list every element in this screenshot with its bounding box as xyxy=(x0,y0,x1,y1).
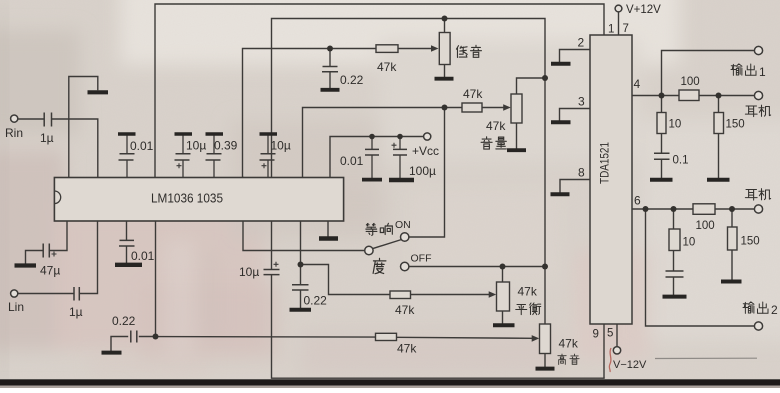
svg-text:3: 3 xyxy=(578,95,585,109)
resistor 150 (ch2) xyxy=(728,227,738,250)
wire: 0.01 bottom cap to ground xyxy=(126,247,128,263)
terminal Lin xyxy=(11,290,18,297)
svg-text:1µ: 1µ xyxy=(69,305,83,319)
svg-text:0.1: 0.1 xyxy=(673,155,689,167)
wire: 10 ohm branch ch2 xyxy=(673,209,675,229)
wire: LM1036 ground pin xyxy=(327,221,329,237)
wire: stair to balance wiper xyxy=(301,265,391,295)
capacitor 0.22 (bass line) xyxy=(322,67,338,72)
svg-text:+Vcc: +Vcc xyxy=(412,144,439,158)
wire: LM1036 left pin to top-left ground xyxy=(69,77,98,178)
wire: 10u #2 top cap leads xyxy=(267,136,269,178)
label 耳机 (headphone 1) xyxy=(745,106,757,117)
wire: balance 47k to wiper arrow xyxy=(411,294,490,296)
label 等响 (loudness) xyxy=(366,223,377,235)
wiper arrow (bass) xyxy=(431,45,439,52)
svg-text:2: 2 xyxy=(771,303,778,317)
wire: treble line to 47k xyxy=(156,336,376,339)
wire: LM1036 top pin to bass/treble rail (x=545 bus) xyxy=(272,19,546,325)
wire: output2 branch down xyxy=(646,209,755,326)
svg-text:V+12V: V+12V xyxy=(626,4,661,16)
ground (bass pot) xyxy=(435,77,454,81)
wire: 10 ohm branch ch1 xyxy=(661,96,663,113)
wire: TDA pin 3 stub to ground xyxy=(560,109,591,121)
ground (0.01 Vcc decoupling) xyxy=(362,178,382,182)
terminal V+12V xyxy=(615,5,622,12)
svg-text:0.22: 0.22 xyxy=(112,314,136,328)
svg-text:9: 9 xyxy=(593,329,599,341)
capacitor 0.22 (bottom-left, series) xyxy=(131,331,137,343)
switch SW loudness common contact xyxy=(365,246,373,254)
wire: 100 resistor to headphone jack 1 xyxy=(699,95,755,97)
capacitor 0.01 (above LM1036) xyxy=(119,154,135,160)
capacitor ch2 zobel xyxy=(666,271,684,277)
ground (150 ch1) xyxy=(707,178,730,182)
capacitor 1u (Rin coupling) xyxy=(44,113,51,127)
wire: 10 ohm to 0.1 cap ch1 xyxy=(661,134,663,153)
faint pencil line right xyxy=(655,357,757,359)
switch SW loudness ON contact xyxy=(401,233,409,241)
wire: TDA pin 5 lead to V-12V xyxy=(616,324,618,347)
svg-text:10µ: 10µ xyxy=(186,139,206,153)
potentiometer 47k volume xyxy=(511,94,522,123)
ground (treble pot) xyxy=(536,367,555,371)
ground (0.01 cap below LM1036) xyxy=(115,263,142,267)
wire: balance pot top lead xyxy=(502,267,504,283)
wire: 0.22 cap to ground xyxy=(329,73,331,88)
ground (TDA pin 8) xyxy=(551,192,570,196)
wire: 10u cap to bottom rail over to TDA pin 9 xyxy=(272,275,605,378)
wire: Rin input line xyxy=(18,118,43,120)
wire: balance pot bottom to ground xyxy=(502,311,504,324)
label 高音 (treble) xyxy=(558,354,566,364)
ground (TDA pin 3) xyxy=(551,120,571,124)
wire: Lin pin down xyxy=(80,221,98,294)
capacitor 0.01 (below LM1036) xyxy=(119,240,135,246)
svg-text:8: 8 xyxy=(578,166,585,180)
wire: 150 branch ch1 xyxy=(718,96,720,113)
node: OFF line on bus xyxy=(542,264,548,270)
node: headphone divider ch1 xyxy=(716,93,722,99)
wire: 10u pin lead down xyxy=(271,221,273,269)
node: TDA pin 6 output node xyxy=(643,206,649,212)
wire: cap ch2 to ground xyxy=(673,278,675,295)
wire: TDA pin 7 lead from V+12V xyxy=(618,12,620,35)
svg-text:1: 1 xyxy=(759,65,766,79)
svg-text:100µ: 100µ xyxy=(409,164,436,178)
wire: TDA pin 4 stub xyxy=(632,95,662,97)
ground (0.22 mid cap) xyxy=(290,308,312,312)
svg-text:0.01: 0.01 xyxy=(131,249,155,263)
svg-text:4: 4 xyxy=(634,77,641,91)
terminal output 2 xyxy=(754,322,762,330)
svg-text:OFF: OFF xyxy=(411,253,432,265)
potentiometer 47k balance xyxy=(497,282,510,311)
wire: 0.01 bottom cap pin lead xyxy=(126,221,128,240)
wire: 47u cap to ground corner xyxy=(26,251,43,264)
wire: 47k to bass pot wiper arrow xyxy=(398,48,432,50)
svg-text:0.01: 0.01 xyxy=(130,139,154,153)
ground (0.1 cap ch1) xyxy=(650,178,673,182)
terminal V-12V xyxy=(613,347,620,354)
svg-text:Lin: Lin xyxy=(8,300,24,314)
wire: 0.1 cap to ground ch1 xyxy=(661,160,663,178)
wire: LM1036 bass pin to 47k and bass wiper xyxy=(243,49,377,178)
wiper arrow (treble) xyxy=(532,335,540,342)
ground (0.22 cap on bass line) xyxy=(321,88,340,92)
wiper arrow (volume) xyxy=(503,104,511,111)
resistor 150 (ch1) xyxy=(714,113,724,134)
svg-text:47k: 47k xyxy=(486,119,506,133)
svg-text:47k: 47k xyxy=(397,342,417,356)
wire: 47k to treble pot wiper xyxy=(397,337,533,338)
potentiometer 47k bass xyxy=(439,33,450,65)
svg-text:5: 5 xyxy=(607,328,613,340)
wire: output1 branch up xyxy=(662,51,755,96)
wire: LM1036 pin to volume line (wire D) xyxy=(303,108,463,178)
capacitor 100u electrolytic (Vcc) xyxy=(393,149,407,155)
svg-text:1: 1 xyxy=(608,24,614,36)
resistor 100 (ch2) xyxy=(693,204,715,215)
wire: 10u top cap leads xyxy=(182,136,184,178)
node: 10 ohm branch ch2 xyxy=(671,206,677,212)
wire: Lin input line xyxy=(18,293,73,295)
terminal output 1 xyxy=(754,46,762,54)
svg-text:0.22: 0.22 xyxy=(340,73,364,87)
wire: 100u decoupling to ground xyxy=(399,156,401,179)
svg-text:47k: 47k xyxy=(377,60,397,74)
capacitor 0.22 (mid, to ground) xyxy=(292,285,309,290)
ground (volume pot) xyxy=(507,148,526,152)
ground (LM1036 ground pin) xyxy=(319,236,338,240)
wire: 0.22 cap branch on bass line xyxy=(329,49,331,67)
node: 0.01 on Vcc rail xyxy=(369,134,375,140)
ground (0.22 cap bottom-left) xyxy=(102,351,122,355)
label 平衡 (balance) xyxy=(516,305,527,315)
node: ON switch on volume line xyxy=(442,105,448,111)
TDA pin 9 wire (left of digit 5) xyxy=(603,325,605,379)
wire: bass pot bottom to ground xyxy=(444,65,446,78)
wire: volume pot bottom to ground xyxy=(516,123,518,149)
capacitor 10u electrolytic #2 (above LM1036) xyxy=(260,154,276,160)
node: 0.22 mid branch xyxy=(298,262,304,268)
wire: 0.01 decoupling branch xyxy=(371,137,373,150)
svg-text:7: 7 xyxy=(623,23,629,35)
ground (47u cap) xyxy=(15,263,37,267)
resistor 10 (ch2) xyxy=(669,229,680,251)
wire: 100u decoupling branch xyxy=(399,137,401,150)
wire: long pin lead down to treble line xyxy=(155,221,157,337)
wire: TDA pin 2 stub to ground xyxy=(560,50,591,63)
label 度 (loudness 2nd row) xyxy=(373,258,386,273)
wire: loudness ON branch up to volume line xyxy=(409,108,445,238)
wire: 10 ohm to cap ch2 xyxy=(673,251,675,271)
capacitor 1u (Lin coupling) xyxy=(74,287,79,301)
capacitor 10u electrolytic (above LM1036) xyxy=(175,154,191,160)
wire: volume pot top lead to bus xyxy=(517,78,546,94)
ground (top of 0.39 cap above LM1036) xyxy=(206,132,224,136)
node: balance top on OFF line xyxy=(500,264,506,270)
label 输出1 (output 1) xyxy=(731,64,742,76)
resistor 47k (volume series) xyxy=(462,103,482,112)
resistor 100 (ch1) xyxy=(679,90,699,101)
terminal Rin xyxy=(11,115,18,122)
svg-text:10µ: 10µ xyxy=(271,139,291,153)
node: headphone divider ch2 xyxy=(729,206,735,212)
wire: loudness OFF to balance/treble bus xyxy=(409,266,545,268)
svg-text:0.22: 0.22 xyxy=(304,294,328,308)
ground (150 ch2) xyxy=(721,280,742,284)
wire: 0.01 decoupling to ground xyxy=(371,156,373,178)
wire: 100 ch2 to headphone jack 2 xyxy=(715,208,755,210)
svg-text:6: 6 xyxy=(634,194,641,208)
label 耳机 (headphone 2) xyxy=(745,190,757,201)
wire: 0.01 top cap leads xyxy=(126,136,128,178)
wire: 0.39 top cap leads xyxy=(213,136,215,178)
node: volume top on bus xyxy=(542,75,548,81)
potentiometer 47k treble xyxy=(540,324,551,354)
wire: Rin cap to LM1036 pin xyxy=(53,119,98,178)
wire: TDA pin 8 stub to ground xyxy=(560,180,590,193)
svg-text:V−12V: V−12V xyxy=(613,359,647,371)
svg-text:TDA1521: TDA1521 xyxy=(600,142,612,184)
wire: loudness switch lever xyxy=(373,240,401,249)
svg-text:100: 100 xyxy=(681,76,700,88)
label 低音 (bass) xyxy=(456,46,467,58)
ground (top of 10u cap above LM1036) xyxy=(175,132,193,136)
capacitor 0.01 (Vcc decoupling) xyxy=(365,149,379,155)
terminal +Vcc xyxy=(424,133,431,140)
node: bass pot top on rail xyxy=(442,16,448,22)
faint scan streaks xyxy=(90,185,390,375)
label 音量 (volume) xyxy=(481,137,492,149)
svg-text:47k: 47k xyxy=(518,285,538,299)
capacitor 10u electrolytic (mid, below LM1036) xyxy=(264,270,280,275)
wire: treble pot bottom to ground xyxy=(544,354,546,368)
ground (balance pot) xyxy=(493,323,515,327)
resistor 10 (ch1) xyxy=(657,113,666,134)
page edge dark bar xyxy=(0,379,780,385)
svg-text:47k: 47k xyxy=(395,303,415,317)
ground (100u Vcc decoupling) xyxy=(389,178,414,183)
terminal headphone 2 xyxy=(754,205,762,213)
ground (cap ch2) xyxy=(663,295,687,299)
wire: loudness common to LM1036 pin xyxy=(243,178,365,251)
svg-text:0.39: 0.39 xyxy=(214,139,238,153)
svg-text:47µ: 47µ xyxy=(40,264,60,278)
node: 0.22 on bass line xyxy=(327,46,333,52)
wiper arrow (balance) xyxy=(489,291,497,298)
svg-text:1µ: 1µ xyxy=(40,131,54,145)
wire: TDA pin 6 stub xyxy=(632,208,674,210)
wire: 0.22 mid pin lead down xyxy=(300,221,302,265)
wire: 47u feedback pin down xyxy=(50,221,68,251)
wire: 0.22 ground corner xyxy=(111,337,128,352)
svg-text:2: 2 xyxy=(578,36,585,50)
ground (top of second 10u cap above LM1036) xyxy=(260,132,278,136)
wire: pin6 node to 100 ch2 xyxy=(674,208,694,210)
terminal headphone 1 xyxy=(754,91,762,99)
op-amp U1 LM1036 tone control IC xyxy=(54,178,343,222)
svg-text:10µ: 10µ xyxy=(239,265,259,279)
op-amp U2 TDA1521 power amplifier xyxy=(590,35,632,324)
wire: 150 ch2 to ground xyxy=(731,250,733,280)
capacitor 0.1 (ch1 zobel) xyxy=(654,153,670,159)
wire: bass pot top lead from rail xyxy=(444,19,446,33)
svg-text:150: 150 xyxy=(726,119,745,131)
node: treble line junction xyxy=(153,334,159,340)
svg-text:ON: ON xyxy=(395,219,411,231)
svg-text:150: 150 xyxy=(741,236,760,248)
wire: 47k to volume pot wiper arrow xyxy=(482,107,505,109)
svg-text:LM1036 1035: LM1036 1035 xyxy=(151,191,223,206)
ground (TDA pin 2) xyxy=(551,62,571,66)
wire: top rail from LM1036 top pin4 up-over to TDA1521 pin 1 xyxy=(155,4,604,178)
svg-text:10: 10 xyxy=(669,119,682,131)
svg-text:Rin: Rin xyxy=(5,126,23,140)
resistor 47k (treble series) xyxy=(376,333,397,340)
svg-text:47k: 47k xyxy=(559,337,579,351)
svg-text:100: 100 xyxy=(696,220,715,232)
node: 100u on Vcc rail xyxy=(397,134,403,140)
svg-text:10: 10 xyxy=(683,237,696,249)
left scan edge shading xyxy=(0,0,7,388)
wire: pin4 node to 100 resistor xyxy=(662,95,680,97)
resistor 47k (bass series) xyxy=(376,45,398,53)
ground (top-left near Rin pin) xyxy=(88,90,109,94)
resistor 47k (balance series) xyxy=(390,291,411,299)
ground (top of 0.01 cap above LM1036) xyxy=(118,132,136,136)
wire: 0.22 mid cap leads xyxy=(300,265,302,285)
label 输出2 (output 2) xyxy=(743,302,754,314)
switch SW loudness OFF contact xyxy=(401,262,409,270)
red pen squiggle near V-12V xyxy=(609,348,611,372)
node: TDA pin 4 output node xyxy=(659,93,665,99)
wire: 150 to ground ch1 xyxy=(718,134,720,178)
wire: +Vcc rail from LM1036 pin xyxy=(330,137,424,178)
wire: 150 branch ch2 xyxy=(731,209,733,227)
svg-text:0.01: 0.01 xyxy=(340,154,364,168)
svg-text:47k: 47k xyxy=(463,87,483,101)
wire: 0.22 input cap to treble line xyxy=(140,336,156,338)
capacitor 0.39 (above LM1036) xyxy=(206,154,222,160)
capacitor 47u electrolytic (feedback) xyxy=(43,244,49,258)
